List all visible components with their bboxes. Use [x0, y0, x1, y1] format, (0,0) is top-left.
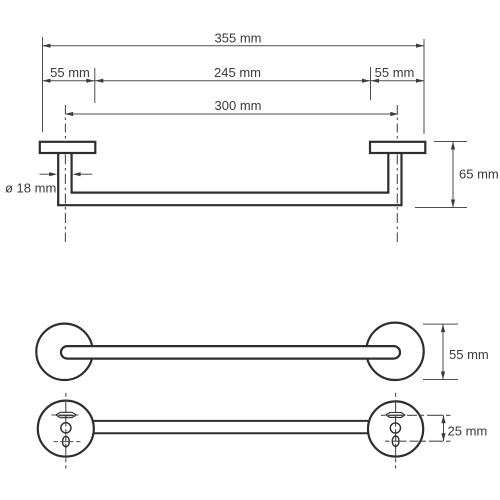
vertical centerline left rosette (bottom view)	[65, 393, 67, 469]
right rosette (front view)	[366, 323, 423, 380]
dimension line 25 mm	[443, 415, 445, 441]
middle hole left	[61, 423, 71, 433]
dimension line 55/245/55 mm	[43, 80, 425, 82]
middle hole right	[390, 423, 400, 433]
arrowhead diameter right (points left)	[73, 172, 81, 176]
right rosette (bottom view)	[368, 401, 423, 456]
towel bar inner outline (top view)	[72, 154, 389, 193]
towel bar (front view)	[61, 346, 400, 359]
65mm bottom extension line	[415, 207, 467, 209]
svg-text:245 mm: 245 mm	[214, 65, 261, 80]
arrowhead 65mm bottom	[451, 200, 455, 208]
arrowhead 55mm-right left end	[371, 79, 379, 83]
horizontal centerline through right slot extending to dimension	[381, 414, 451, 416]
extension tick right (x=370.5)	[370, 67, 372, 100]
dimension line 355 mm	[43, 45, 425, 47]
svg-text:65 mm: 65 mm	[459, 167, 499, 182]
dimension line 55 mm front	[442, 324, 444, 379]
arrowhead 25mm top	[441, 415, 445, 423]
arrowhead 300mm left	[65, 112, 73, 116]
65mm top extension line	[434, 141, 467, 143]
arrowhead 55mm front bottom	[441, 372, 445, 380]
extension line right (top view, x=424)	[423, 39, 425, 134]
dimension line 65 mm	[452, 142, 454, 208]
arrowhead diameter left (points right)	[49, 172, 57, 176]
bar bottom edge (bottom view)	[94, 432, 369, 434]
left rosette (front view)	[36, 324, 92, 380]
svg-text:355 mm: 355 mm	[215, 30, 262, 45]
arrowhead 245mm left end	[95, 79, 103, 83]
svg-text:55 mm: 55 mm	[375, 65, 415, 80]
diameter arrow leader left	[40, 173, 51, 175]
dimension line 300 mm	[65, 113, 398, 115]
right wall plate (top view)	[370, 142, 425, 153]
slot line left	[59, 415, 74, 417]
arrowhead 55mm-right right end	[416, 79, 424, 83]
svg-text:ø 18 mm: ø 18 mm	[5, 181, 56, 196]
extension tick left (x=94.8)	[94, 68, 96, 103]
bottom screw right (oval)	[392, 436, 399, 446]
svg-text:55 mm: 55 mm	[449, 347, 489, 362]
left wall plate (top view)	[40, 142, 96, 153]
55mm front top extension line	[423, 323, 458, 325]
arrowhead 55mm-left left end	[43, 79, 51, 83]
55mm front bottom extension line	[423, 379, 458, 381]
extension line left (top view, x=42.5)	[42, 37, 44, 132]
slot screw head right (lens)	[386, 413, 405, 418]
centerline left post lower segment (dash-dot)	[64, 155, 66, 243]
centerline right post lower segment (dash-dot)	[396, 155, 398, 243]
slot screw head left (lens)	[56, 412, 77, 417]
arrowhead 55mm front top	[441, 324, 445, 332]
arrowhead 245mm right end	[362, 79, 370, 83]
diameter arrow leader right	[80, 173, 92, 175]
vertical centerline right rosette (bottom view)	[395, 393, 397, 469]
arrowhead 55mm-left right end	[86, 79, 94, 83]
left rosette (bottom view)	[38, 401, 94, 457]
arrowhead 355mm left	[43, 44, 51, 48]
horizontal centerline through left bottom screw	[53, 441, 80, 443]
svg-text:55 mm: 55 mm	[50, 65, 90, 80]
centerline right post upper segment (dash-dot)	[396, 105, 398, 141]
slot line right	[389, 414, 403, 416]
horizontal centerline through left slot	[51, 414, 80, 416]
svg-text:25 mm: 25 mm	[448, 423, 488, 438]
bar top edge (bottom view)	[94, 420, 369, 422]
bottom screw left (oval)	[63, 436, 70, 446]
towel bar outer outline (top view)	[58, 154, 401, 206]
centerline left post upper segment (dash-dot)	[64, 105, 66, 141]
horizontal centerline through right bottom screw extending to dimension	[385, 440, 451, 442]
arrowhead 355mm right	[416, 44, 424, 48]
svg-text:300 mm: 300 mm	[215, 98, 262, 113]
arrowhead 25mm bottom	[441, 433, 445, 441]
arrowhead 300mm right	[390, 112, 398, 116]
arrowhead 65mm top	[451, 142, 455, 150]
